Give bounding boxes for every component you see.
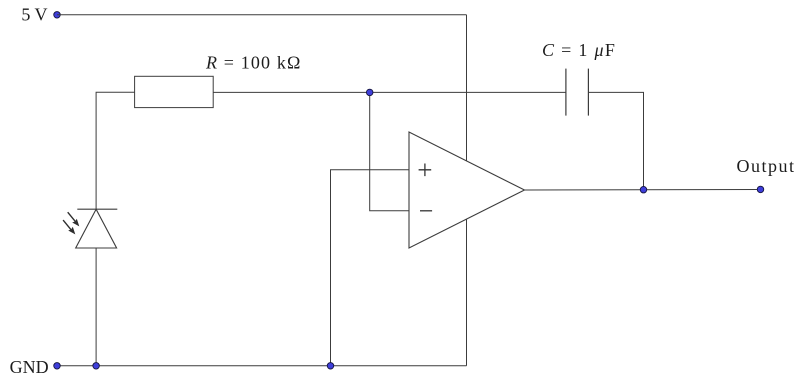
wire resistor left lead down to photodiode (96, 92, 135, 209)
svg-text:R = 100 kΩ: R = 100 kΩ (205, 53, 302, 73)
wire op-amp output (525, 189, 761, 192)
terminal GND (54, 363, 61, 370)
wire capacitor right plate to output node (588, 92, 643, 189)
wire non-inverting input to ground rail (331, 170, 410, 366)
wire photodiode to ground rail (95, 248, 97, 366)
resistor R (135, 76, 214, 107)
terminal Output (757, 186, 764, 193)
op-amp U1 (409, 132, 525, 248)
node A junction dot (366, 89, 373, 96)
photodiode D1 (63, 209, 117, 248)
terminal 5V (54, 12, 61, 18)
wire 5V rail (57, 14, 467, 16)
wire 5V drop to op-amp V+ pin (466, 15, 468, 161)
node output junction dot (640, 186, 647, 193)
wire node A down to inverting input (370, 92, 409, 210)
capacitor C (566, 69, 589, 116)
node ground junction non-inverting (327, 363, 334, 370)
wire op-amp V- pin to ground rail (466, 219, 468, 366)
wire resistor right lead to node A (213, 91, 370, 93)
svg-text:GND: GND (10, 357, 49, 377)
node ground junction photodiode (93, 363, 100, 370)
svg-text:5 V: 5 V (21, 5, 47, 25)
svg-text:C = 1 μF: C = 1 μF (542, 40, 616, 60)
wire ground rail (57, 365, 467, 367)
wire node A to capacitor left plate (370, 91, 566, 93)
svg-text:Output: Output (737, 156, 796, 176)
